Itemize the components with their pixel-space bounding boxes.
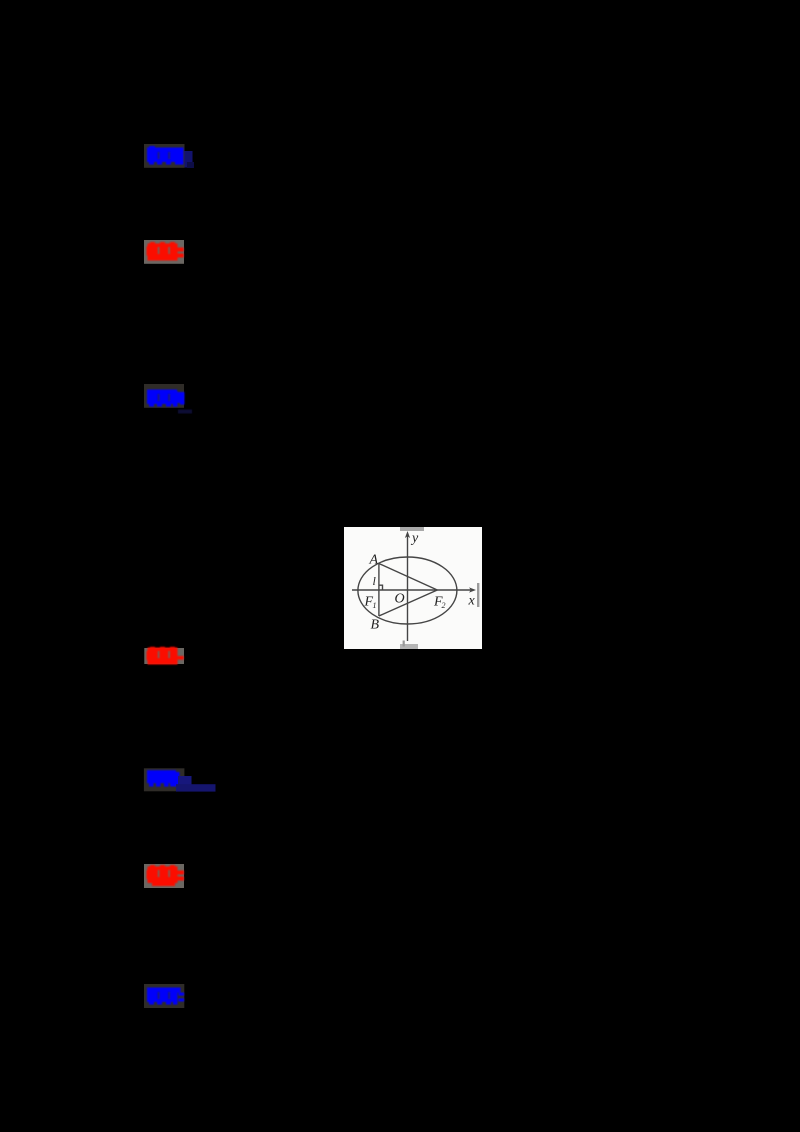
badge 7 (blue, y=984) [140,980,220,1014]
badge 6 (red, y=866) [140,860,220,900]
x arrow [469,587,476,592]
faint navy remnant [178,410,192,414]
svg-text:y: y [410,531,419,546]
svg-text:2: 2 [442,601,446,610]
badge 5 (blue, y=770) with navy bar [140,764,230,798]
line A-F2 [379,564,437,591]
y arrow [405,531,410,538]
y-axis [407,535,409,641]
svg-text:x: x [468,594,476,609]
badge 2 (red, y=240) [140,236,220,270]
svg-text:O: O [395,592,405,607]
scan tab bottom [400,644,418,649]
ellipse [358,557,457,624]
scan tick bottom [403,641,405,647]
scan tab top [400,527,424,531]
right angle mark [379,585,383,590]
x-axis [352,589,472,591]
diagram box (white) [344,527,482,649]
navy block [178,776,192,785]
badge 3 (blue, y=384) [140,380,220,414]
badge 4 (red, y=648, shorter) [140,642,220,676]
svg-text:B: B [371,618,380,633]
svg-text:A: A [369,553,379,568]
badge 1 (blue, y=144) [140,140,220,174]
navy bar [176,784,216,791]
svg-text:1: 1 [373,601,377,610]
scan strip right [477,583,479,607]
line F2-B [379,590,437,616]
chord AB [378,564,380,617]
